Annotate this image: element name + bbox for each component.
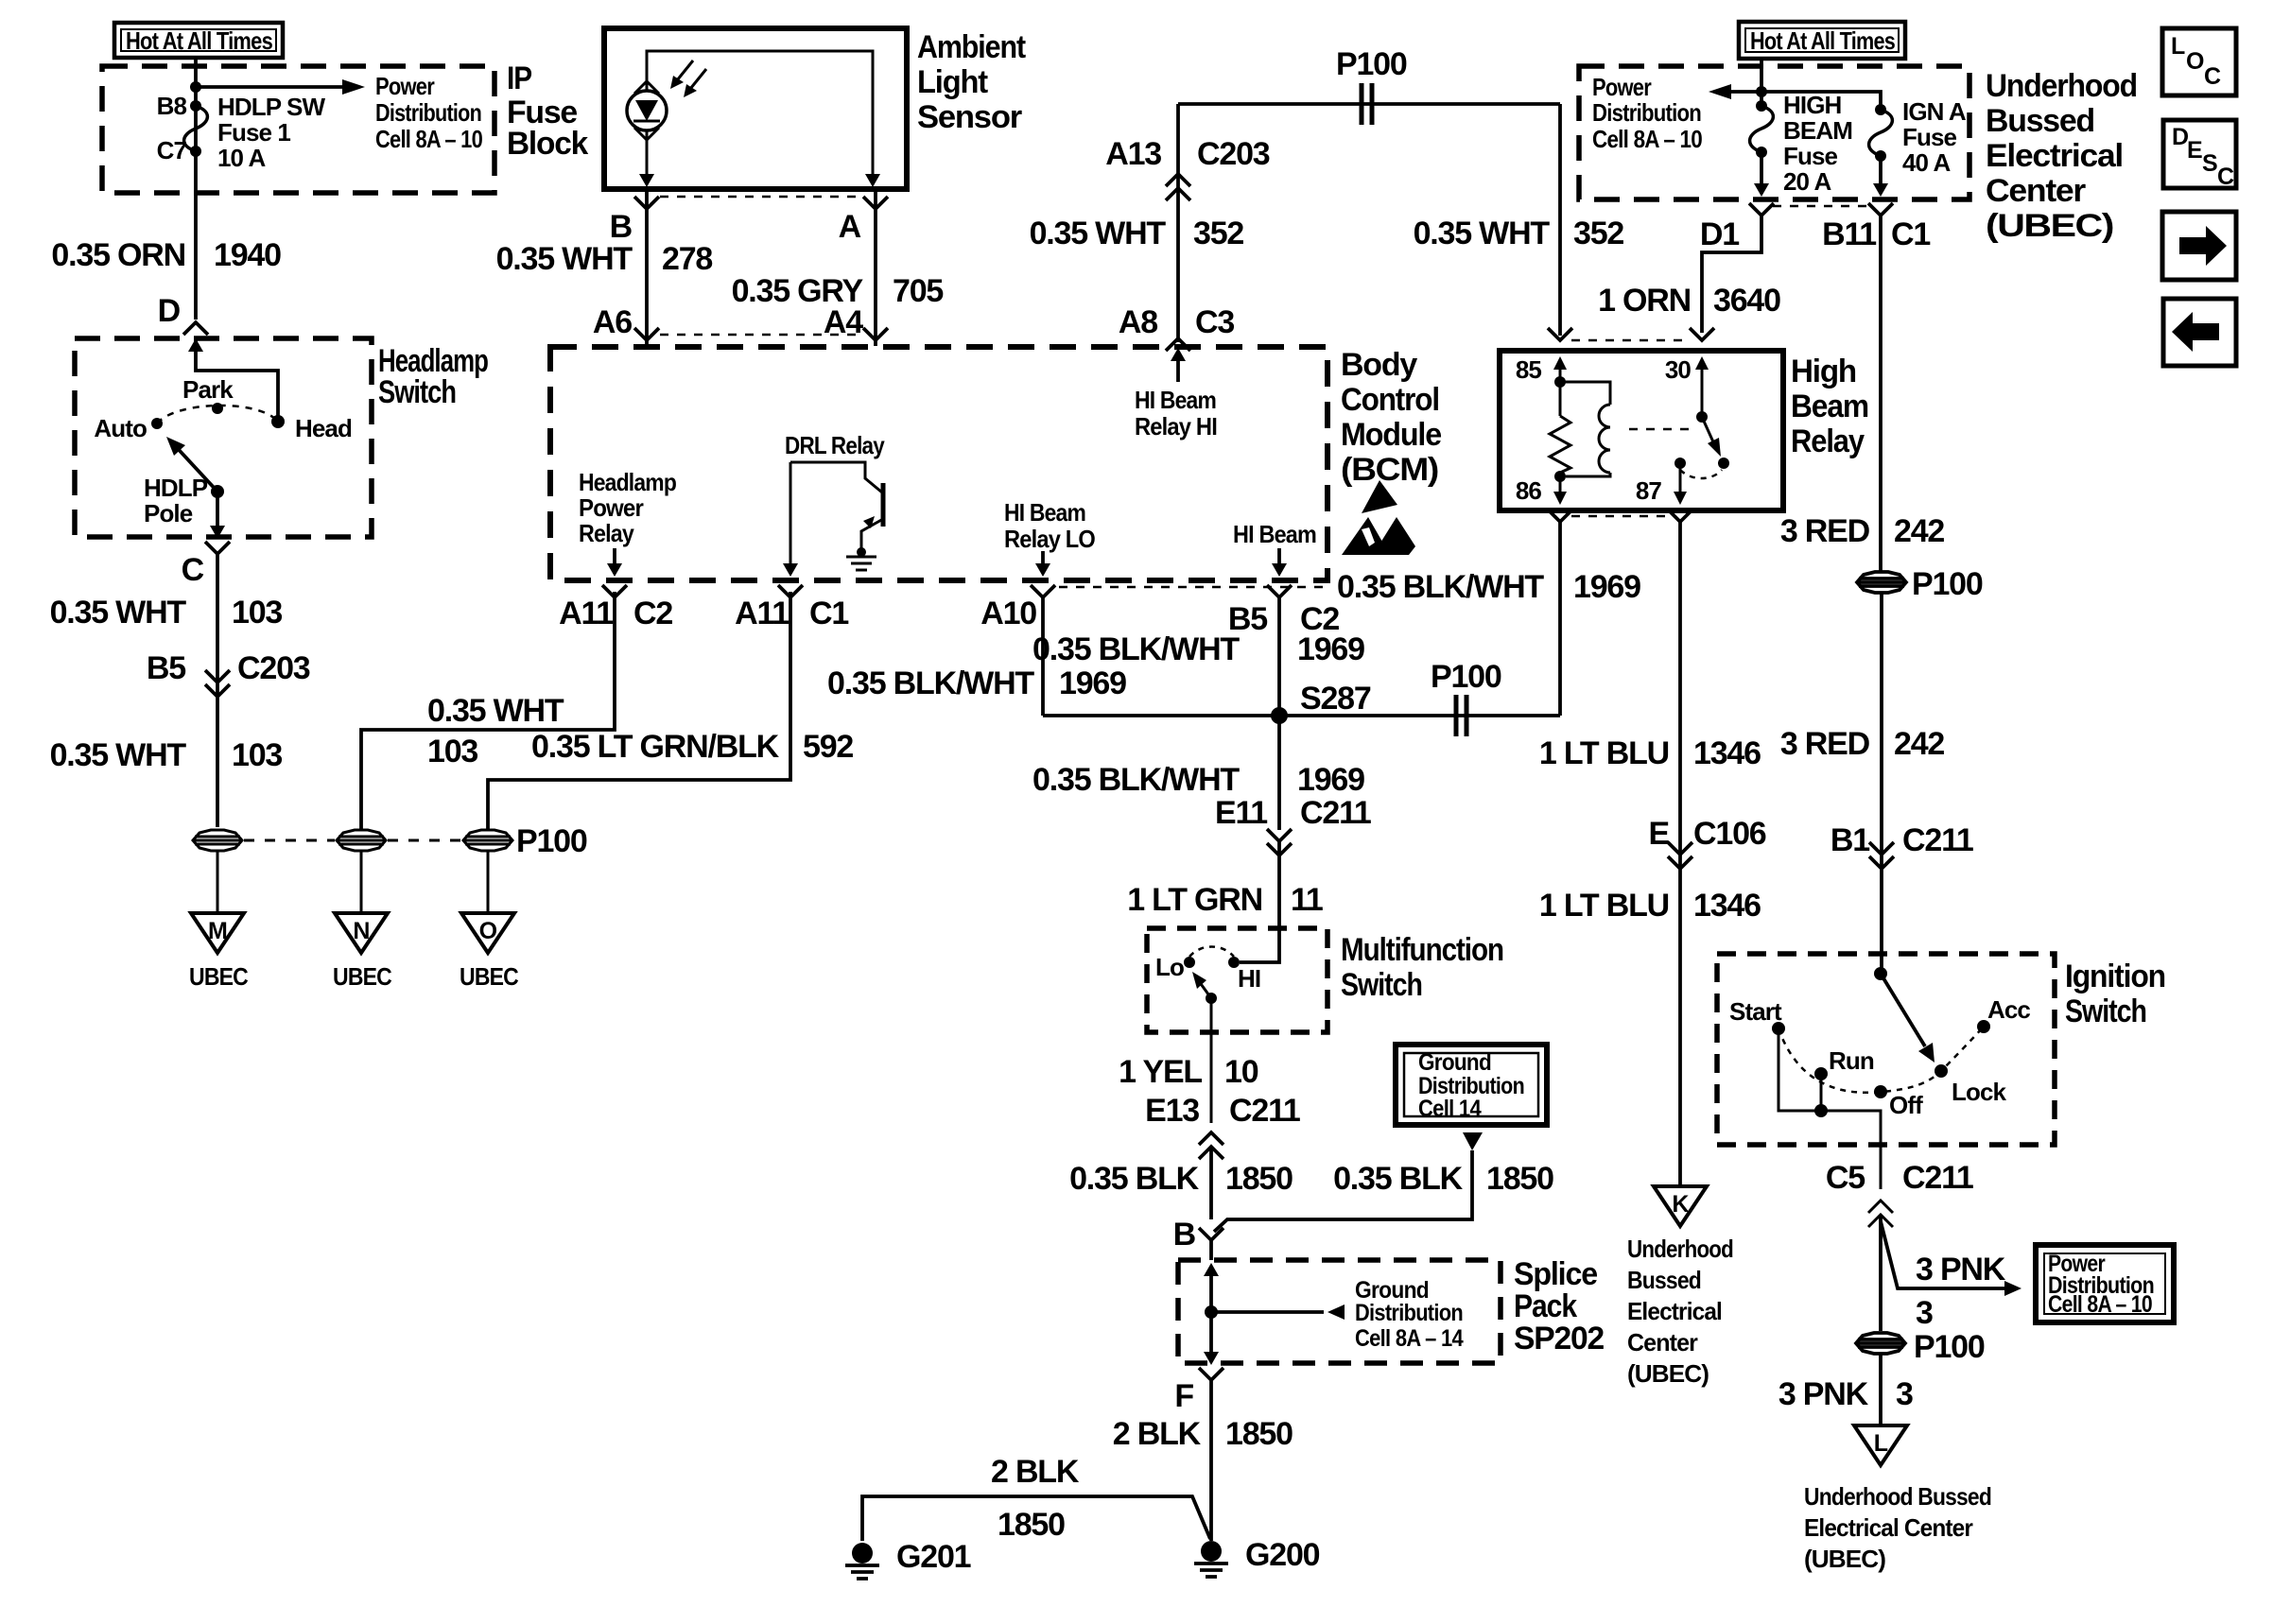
- svg-text:E11: E11: [1215, 795, 1267, 831]
- svg-text:242: 242: [1894, 726, 1944, 762]
- svg-text:A6: A6: [593, 304, 632, 340]
- svg-text:Electrical: Electrical: [1986, 138, 2123, 174]
- svg-text:HI Beam: HI Beam: [1135, 386, 1216, 414]
- svg-text:1 YEL: 1 YEL: [1119, 1054, 1202, 1090]
- svg-text:Sensor: Sensor: [917, 99, 1022, 135]
- svg-text:Cell 8A – 10: Cell 8A – 10: [1592, 125, 1702, 153]
- svg-text:C106: C106: [1693, 816, 1766, 852]
- svg-text:Distribution: Distribution: [375, 98, 481, 127]
- svg-text:O: O: [479, 918, 497, 944]
- svg-text:Underhood: Underhood: [1627, 1235, 1733, 1263]
- svg-text:1969: 1969: [1297, 631, 1364, 667]
- svg-text:1346: 1346: [1693, 735, 1761, 771]
- svg-text:705: 705: [893, 273, 943, 309]
- svg-text:86: 86: [1516, 476, 1542, 505]
- svg-text:G201: G201: [896, 1539, 971, 1575]
- svg-text:592: 592: [803, 729, 853, 765]
- svg-text:P100: P100: [1914, 1329, 1985, 1365]
- svg-text:Switch: Switch: [378, 374, 456, 410]
- svg-text:(UBEC): (UBEC): [1804, 1545, 1885, 1573]
- svg-text:F: F: [1174, 1378, 1193, 1414]
- svg-text:1 LT GRN: 1 LT GRN: [1127, 882, 1262, 918]
- svg-text:1969: 1969: [1573, 569, 1640, 605]
- svg-text:0.35 WHT: 0.35 WHT: [50, 595, 187, 631]
- svg-text:Center: Center: [1986, 173, 2086, 209]
- svg-text:HIGH: HIGH: [1783, 91, 1842, 119]
- svg-text:1969: 1969: [1059, 665, 1126, 701]
- svg-text:D: D: [158, 293, 181, 329]
- svg-text:E: E: [1649, 816, 1670, 852]
- svg-text:IGN A: IGN A: [1902, 97, 1967, 126]
- svg-text:Underhood: Underhood: [1986, 68, 2137, 104]
- svg-text:0.35 LT GRN/BLK: 0.35 LT GRN/BLK: [531, 729, 780, 765]
- svg-text:11: 11: [1291, 882, 1323, 918]
- svg-text:Module: Module: [1341, 417, 1441, 453]
- svg-text:0.35 WHT: 0.35 WHT: [1030, 216, 1167, 251]
- svg-text:Power: Power: [1592, 73, 1652, 101]
- svg-text:0.35 BLK/WHT: 0.35 BLK/WHT: [1337, 569, 1544, 605]
- svg-text:1 LT BLU: 1 LT BLU: [1539, 735, 1669, 771]
- svg-text:B8: B8: [157, 92, 187, 120]
- svg-text:IP: IP: [507, 60, 531, 96]
- svg-text:Pack: Pack: [1514, 1288, 1577, 1324]
- svg-text:Multifunction: Multifunction: [1341, 932, 1503, 968]
- svg-text:Electrical: Electrical: [1627, 1297, 1722, 1325]
- svg-text:Lock: Lock: [1952, 1078, 2007, 1106]
- svg-text:K: K: [1672, 1191, 1689, 1218]
- svg-text:B: B: [1173, 1217, 1196, 1253]
- svg-text:Cell 8A – 10: Cell 8A – 10: [375, 125, 482, 153]
- svg-text:High: High: [1791, 354, 1856, 389]
- svg-text:Bussed: Bussed: [1627, 1266, 1701, 1294]
- svg-text:0.35 BLK: 0.35 BLK: [1333, 1161, 1464, 1197]
- svg-text:S: S: [2202, 150, 2217, 177]
- svg-text:HDLP: HDLP: [144, 474, 208, 502]
- svg-text:S287: S287: [1300, 681, 1371, 717]
- svg-text:HI Beam: HI Beam: [1004, 498, 1085, 527]
- svg-text:Splice: Splice: [1514, 1256, 1597, 1292]
- svg-text:0.35 BLK/WHT: 0.35 BLK/WHT: [827, 665, 1034, 701]
- svg-text:C: C: [2217, 164, 2234, 190]
- svg-text:C1: C1: [809, 596, 848, 631]
- svg-text:Relay HI: Relay HI: [1135, 412, 1217, 441]
- svg-text:1850: 1850: [1225, 1161, 1293, 1197]
- svg-text:A13: A13: [1105, 136, 1161, 172]
- svg-text:87: 87: [1636, 476, 1662, 505]
- svg-text:40 A: 40 A: [1902, 148, 1951, 177]
- svg-text:Distribution: Distribution: [1592, 98, 1701, 127]
- svg-text:Ignition: Ignition: [2065, 959, 2165, 994]
- svg-text:C: C: [182, 552, 204, 588]
- svg-text:C211: C211: [1902, 822, 1973, 858]
- svg-text:C203: C203: [1197, 136, 1270, 172]
- svg-text:0.35 WHT: 0.35 WHT: [50, 737, 187, 773]
- svg-text:103: 103: [232, 595, 282, 631]
- svg-text:278: 278: [662, 241, 712, 277]
- svg-text:Ground: Ground: [1418, 1049, 1491, 1076]
- svg-text:Fuse 1: Fuse 1: [217, 118, 290, 147]
- svg-text:10 A: 10 A: [217, 144, 266, 172]
- svg-text:Headlamp: Headlamp: [579, 468, 676, 496]
- svg-text:HDLP SW: HDLP SW: [217, 93, 325, 121]
- svg-text:0.35 WHT: 0.35 WHT: [1414, 216, 1551, 251]
- svg-text:1940: 1940: [214, 237, 281, 273]
- svg-text:Bussed: Bussed: [1986, 103, 2094, 139]
- svg-text:SP202: SP202: [1514, 1321, 1604, 1356]
- svg-text:E13: E13: [1145, 1093, 1199, 1129]
- svg-text:L: L: [1874, 1430, 1888, 1457]
- svg-text:Distribution: Distribution: [1355, 1300, 1463, 1326]
- svg-text:3640: 3640: [1713, 283, 1780, 319]
- svg-text:P100: P100: [516, 823, 587, 859]
- svg-text:C7: C7: [157, 136, 187, 164]
- svg-text:Switch: Switch: [2065, 993, 2146, 1029]
- svg-text:1 LT BLU: 1 LT BLU: [1539, 888, 1669, 924]
- svg-text:Start: Start: [1729, 997, 1782, 1026]
- svg-text:Fuse: Fuse: [1902, 123, 1957, 151]
- svg-text:O: O: [2186, 48, 2204, 75]
- svg-text:L: L: [2171, 33, 2185, 60]
- svg-text:85: 85: [1516, 355, 1542, 384]
- svg-text:C1: C1: [1891, 216, 1930, 252]
- svg-text:C211: C211: [1300, 795, 1371, 831]
- svg-text:Underhood Bussed: Underhood Bussed: [1804, 1482, 1991, 1511]
- svg-text:Cell 8A – 10: Cell 8A – 10: [2048, 1291, 2152, 1318]
- svg-text:C2: C2: [633, 596, 672, 631]
- svg-text:352: 352: [1193, 216, 1243, 251]
- svg-text:3: 3: [1916, 1295, 1933, 1331]
- svg-text:BEAM: BEAM: [1783, 116, 1852, 145]
- svg-text:0.35 WHT: 0.35 WHT: [496, 241, 633, 277]
- svg-text:1 ORN: 1 ORN: [1598, 283, 1691, 319]
- svg-text:Lo: Lo: [1155, 953, 1184, 981]
- svg-text:(UBEC): (UBEC): [1627, 1359, 1709, 1388]
- svg-text:D: D: [2172, 124, 2188, 150]
- svg-text:UBEC: UBEC: [333, 962, 392, 991]
- svg-text:Power: Power: [375, 72, 435, 100]
- svg-text:N: N: [353, 918, 369, 944]
- svg-text:Park: Park: [182, 375, 234, 404]
- svg-text:A11: A11: [735, 596, 789, 631]
- svg-text:30: 30: [1665, 355, 1692, 384]
- svg-text:Body: Body: [1341, 347, 1417, 383]
- svg-text:UBEC: UBEC: [460, 962, 519, 991]
- svg-text:UBEC: UBEC: [189, 962, 249, 991]
- svg-text:3 RED: 3 RED: [1780, 726, 1870, 762]
- svg-text:1850: 1850: [1486, 1161, 1553, 1197]
- svg-text:HI: HI: [1238, 964, 1260, 993]
- svg-text:B1: B1: [1831, 822, 1869, 858]
- svg-text:Head: Head: [295, 414, 352, 442]
- svg-text:D1: D1: [1700, 216, 1739, 252]
- svg-text:P100: P100: [1431, 659, 1501, 695]
- svg-text:1850: 1850: [1225, 1416, 1293, 1452]
- svg-text:1969: 1969: [1297, 762, 1364, 798]
- svg-text:C5: C5: [1826, 1160, 1865, 1196]
- svg-text:Ambient: Ambient: [917, 29, 1026, 65]
- svg-text:Hot At All Times: Hot At All Times: [126, 26, 272, 55]
- svg-text:3 PNK: 3 PNK: [1778, 1376, 1869, 1412]
- svg-text:Control: Control: [1341, 382, 1439, 418]
- svg-text:Off: Off: [1889, 1091, 1923, 1119]
- svg-text:Center: Center: [1627, 1328, 1698, 1356]
- svg-text:Pole: Pole: [144, 499, 193, 527]
- svg-text:Run: Run: [1829, 1046, 1874, 1075]
- svg-text:Relay: Relay: [579, 519, 634, 547]
- svg-text:3 PNK: 3 PNK: [1916, 1252, 2006, 1287]
- svg-text:A8: A8: [1119, 304, 1157, 340]
- svg-text:1850: 1850: [998, 1507, 1065, 1543]
- svg-text:0.35 WHT: 0.35 WHT: [427, 693, 564, 729]
- svg-text:Electrical Center: Electrical Center: [1804, 1513, 1973, 1542]
- svg-text:0.35 BLK: 0.35 BLK: [1069, 1161, 1200, 1197]
- svg-text:10: 10: [1224, 1054, 1258, 1090]
- svg-text:Cell 8A – 14: Cell 8A – 14: [1355, 1325, 1464, 1352]
- svg-text:C: C: [2204, 63, 2221, 90]
- svg-text:Block: Block: [507, 126, 588, 162]
- svg-text:C3: C3: [1195, 304, 1234, 340]
- svg-text:A10: A10: [980, 596, 1036, 631]
- svg-text:Relay LO: Relay LO: [1004, 525, 1096, 553]
- svg-text:2 BLK: 2 BLK: [1113, 1416, 1202, 1452]
- svg-text:C211: C211: [1229, 1093, 1300, 1129]
- svg-text:Power: Power: [579, 493, 644, 522]
- svg-text:Fuse: Fuse: [1783, 142, 1838, 170]
- svg-text:DRL Relay: DRL Relay: [785, 431, 885, 459]
- svg-text:P100: P100: [1336, 46, 1407, 82]
- svg-text:Auto: Auto: [94, 414, 147, 442]
- svg-text:E: E: [2187, 137, 2202, 164]
- svg-text:Switch: Switch: [1341, 967, 1422, 1003]
- svg-text:HI Beam: HI Beam: [1233, 520, 1316, 548]
- svg-text:B5: B5: [147, 650, 185, 686]
- svg-text:0.35 BLK/WHT: 0.35 BLK/WHT: [1032, 631, 1240, 667]
- svg-text:2 BLK: 2 BLK: [991, 1454, 1080, 1490]
- svg-text:3 RED: 3 RED: [1780, 513, 1870, 549]
- svg-text:1346: 1346: [1693, 888, 1761, 924]
- svg-text:242: 242: [1894, 513, 1944, 549]
- svg-text:G200: G200: [1245, 1537, 1320, 1573]
- svg-text:103: 103: [232, 737, 282, 773]
- svg-text:C211: C211: [1902, 1160, 1973, 1196]
- svg-text:0.35 BLK/WHT: 0.35 BLK/WHT: [1032, 762, 1240, 798]
- svg-text:20 A: 20 A: [1783, 167, 1831, 196]
- svg-text:M: M: [208, 918, 227, 944]
- svg-text:Beam: Beam: [1791, 389, 1868, 424]
- svg-text:(UBEC): (UBEC): [1986, 208, 2113, 244]
- svg-text:0.35 ORN: 0.35 ORN: [51, 237, 185, 273]
- svg-text:B11: B11: [1822, 216, 1876, 252]
- svg-text:352: 352: [1573, 216, 1623, 251]
- svg-text:B: B: [610, 209, 633, 245]
- svg-text:103: 103: [427, 734, 477, 769]
- svg-text:C203: C203: [237, 650, 310, 686]
- svg-text:Cell 14: Cell 14: [1418, 1096, 1482, 1122]
- svg-text:A4: A4: [824, 304, 863, 340]
- svg-text:(BCM): (BCM): [1341, 452, 1438, 488]
- svg-text:3: 3: [1896, 1376, 1913, 1412]
- svg-text:Hot At All Times: Hot At All Times: [1750, 26, 1895, 55]
- svg-text:Light: Light: [917, 64, 988, 100]
- svg-text:A: A: [839, 209, 861, 245]
- svg-text:A11: A11: [559, 596, 613, 631]
- svg-text:Relay: Relay: [1791, 423, 1865, 459]
- svg-text:Acc: Acc: [1987, 995, 2030, 1024]
- svg-text:P100: P100: [1912, 566, 1983, 602]
